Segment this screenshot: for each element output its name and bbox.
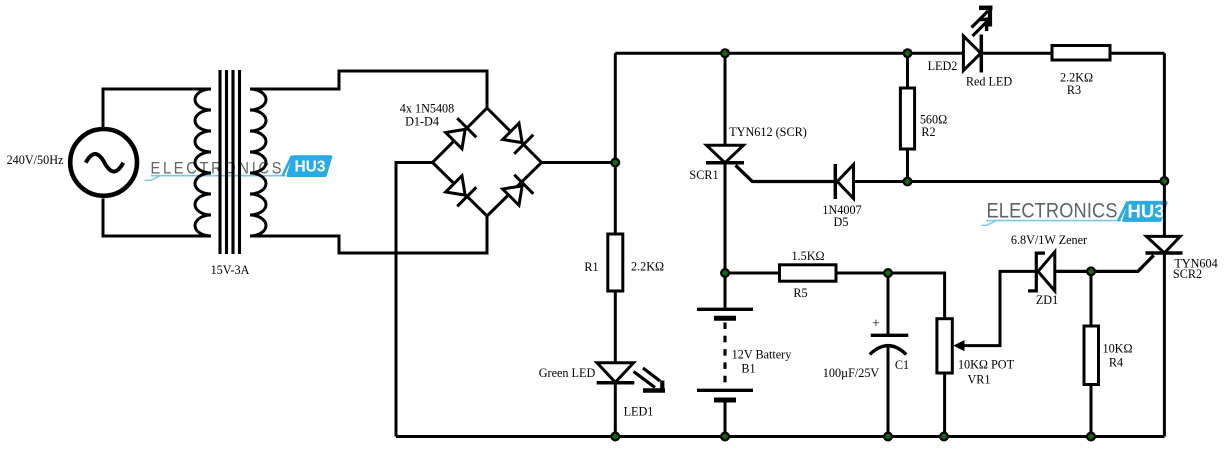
svg-text:+: + xyxy=(872,317,880,332)
svg-text:1.5KΩ: 1.5KΩ xyxy=(791,249,824,263)
svg-text:SCR1: SCR1 xyxy=(689,168,718,182)
svg-text:15V-3A: 15V-3A xyxy=(211,263,250,277)
svg-text:B1: B1 xyxy=(741,362,755,376)
svg-text:VR1: VR1 xyxy=(967,373,990,387)
svg-text:R4: R4 xyxy=(1109,356,1123,370)
svg-text:10KΩ POT: 10KΩ POT xyxy=(958,358,1015,372)
svg-text:R2: R2 xyxy=(921,125,935,139)
svg-text:2.2KΩ: 2.2KΩ xyxy=(631,260,664,274)
svg-text:D1-D4: D1-D4 xyxy=(405,115,439,129)
svg-text:6.8V/1W Zener: 6.8V/1W Zener xyxy=(1011,233,1087,247)
svg-text:HU3: HU3 xyxy=(1127,200,1164,221)
svg-text:LED2: LED2 xyxy=(928,59,958,73)
svg-text:100µF/25V: 100µF/25V xyxy=(823,366,880,380)
svg-text:R5: R5 xyxy=(793,286,807,300)
svg-text:12V Battery: 12V Battery xyxy=(732,347,793,361)
svg-text:LED1: LED1 xyxy=(624,405,654,419)
svg-text:C1: C1 xyxy=(895,358,909,372)
svg-text:Green LED: Green LED xyxy=(539,366,596,380)
svg-text:SCR2: SCR2 xyxy=(1173,267,1202,281)
svg-text:4x 1N5408: 4x 1N5408 xyxy=(400,102,455,116)
svg-text:ELECTRONICS: ELECTRONICS xyxy=(987,199,1118,223)
svg-text:240V/50Hz: 240V/50Hz xyxy=(7,153,64,167)
svg-text:ZD1: ZD1 xyxy=(1036,293,1058,307)
svg-text:Red LED: Red LED xyxy=(966,75,1013,89)
svg-text:HU3: HU3 xyxy=(294,158,325,175)
svg-text:R1: R1 xyxy=(584,260,598,274)
svg-text:D5: D5 xyxy=(834,215,849,229)
svg-text:10KΩ: 10KΩ xyxy=(1102,342,1132,356)
svg-text:TYN612 (SCR): TYN612 (SCR) xyxy=(729,125,807,139)
svg-text:R3: R3 xyxy=(1067,83,1081,97)
